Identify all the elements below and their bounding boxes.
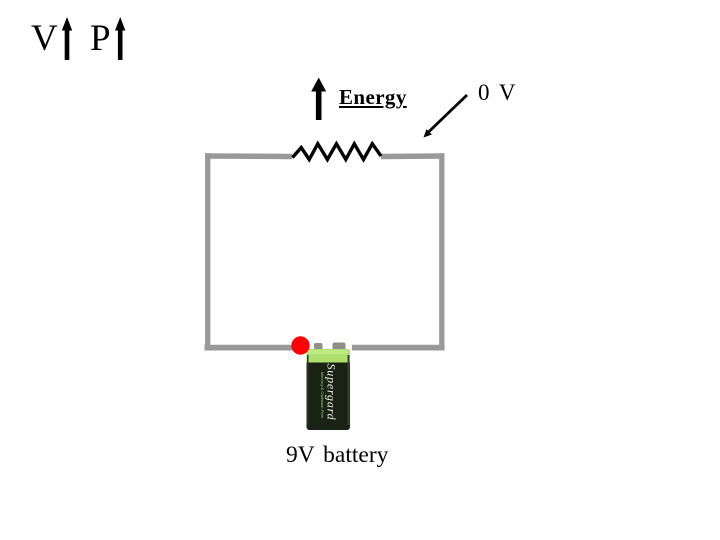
battery body outline (307, 349, 351, 430)
battery green band shine (308, 350, 348, 354)
battery large terminal (333, 343, 346, 351)
label 9V battery (286, 444, 388, 468)
wire top-right segment (381, 153, 444, 159)
wire top-left segment (205, 153, 292, 159)
arrow for P (up) (115, 17, 125, 60)
node label 0 V (478, 81, 515, 104)
svg-text:Supergard: Supergard (325, 364, 339, 421)
wire bottom (205, 345, 445, 351)
battery small terminal (314, 343, 323, 350)
label Energy (339, 87, 407, 108)
battery body edge highlight (348, 355, 350, 425)
label V (voltage axis) (31, 20, 58, 57)
wire left side (205, 153, 210, 350)
arrow for Energy (up) (311, 78, 326, 121)
red dot node (291, 336, 309, 354)
wire right side (439, 153, 444, 350)
arrow for V (up) (62, 17, 72, 60)
resistor R (zigzag) (293, 144, 382, 160)
svg-text:Mercury & Cadmium Free: Mercury & Cadmium Free (320, 372, 325, 419)
battery photo white background (304, 338, 352, 432)
arrow from 0 V to circuit corner (424, 95, 468, 138)
battery green top band (307, 349, 351, 363)
label P (power axis) (90, 20, 111, 57)
